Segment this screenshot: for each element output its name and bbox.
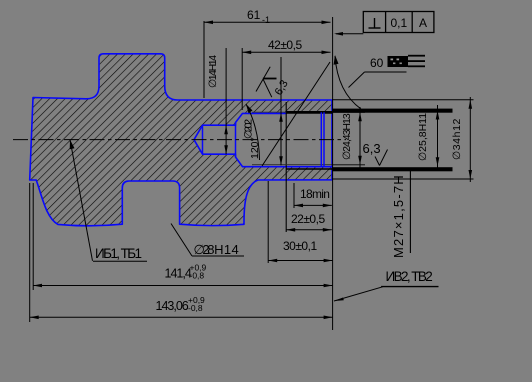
svg-text:0,1: 0,1 [391,16,408,30]
svg-text:A: A [419,16,427,30]
cone-cylinder junction line [202,125,204,154]
chamfer construction diagonal [262,62,330,166]
roughness 6,3 top (rotated) [256,67,291,98]
svg-text:61: 61 [247,8,261,22]
dimension 30±0,1 [268,181,332,263]
svg-text:42±0,5: 42±0,5 [268,38,302,52]
thread thin lines [252,111,286,113]
datum label IB2, TB2 [334,269,439,301]
svg-text:30±0,1: 30±0,1 [283,239,317,253]
svg-text:∅202: ∅202 [243,119,255,139]
svg-text:∅25,8H11: ∅25,8H11 [417,113,429,161]
svg-text:∅28H14: ∅28H14 [194,242,240,257]
angle 60 arc with arrow [335,56,361,109]
thread end double lines [320,112,322,166]
svg-text:141,4: 141,4 [165,267,192,281]
leader to end face [336,33,363,35]
svg-text:M27×1,5-7H: M27×1,5-7H [391,174,406,258]
outer diameter extension lines right [332,99,474,101]
dimension d24,43H13 [332,107,365,169]
datum label IB1, TB1 [70,140,147,262]
svg-text:-0,8: -0,8 [188,303,203,313]
svg-text:ИБ1, ТБ1: ИБ1, ТБ1 [95,246,141,261]
centerline (axis) [13,139,346,141]
svg-text:-1: -1 [262,15,270,25]
svg-text:22±0,5: 22±0,5 [291,212,325,226]
thick thread extension bars right of end face [332,109,453,113]
svg-text:60: 60 [370,56,384,70]
svg-text:∅14H14: ∅14H14 [207,55,219,88]
tolerance frame: perpendicularity 0,1 A [334,12,434,36]
dimension 42±0,5 [242,38,330,110]
countersink label blob + 120 deg [243,104,262,160]
svg-text:18min: 18min [300,187,329,201]
svg-text:6,3: 6,3 [363,141,381,156]
svg-text:∅24,43H13: ∅24,43H13 [341,113,353,160]
bore step face x=290 [285,102,287,232]
svg-text:-0,8: -0,8 [190,271,205,281]
hole end face line [235,122,237,157]
left face extension lines [32,183,34,290]
part body cross-section: hatched fill [30,54,332,226]
thread label M27x1,5-7H with leader [391,171,410,258]
pilot hole diameter dimension (line at x=226) [224,48,228,154]
svg-text:ИВ2, ТВ2: ИВ2, ТВ2 [386,269,433,284]
note 60 with black blob and bars [349,55,426,88]
bore diameter dimension inside (x=281) [279,57,283,165]
label d28H14 with leader [171,224,244,258]
svg-text:143,06: 143,06 [156,299,189,313]
dimension 18min [294,183,332,208]
dimension 143,06 [30,295,333,319]
dimension 22±0,5 [286,212,332,232]
dimension 61 [204,8,331,98]
dimension 141,4 [33,263,333,288]
svg-text:∅34h12: ∅34h12 [451,118,463,160]
dimension d34h12 [451,97,472,182]
end face extension line (vertical, full) [332,17,334,330]
dimension d25,8H11 [417,105,439,171]
roughness 6,3 in bore [363,141,388,166]
